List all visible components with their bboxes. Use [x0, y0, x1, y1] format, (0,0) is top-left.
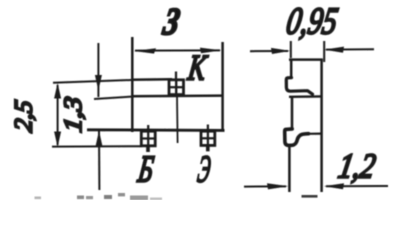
svg-text:1,2: 1,2 [336, 147, 379, 186]
side view: left edge middle segment [291, 97, 294, 130]
svg-text:0,95: 0,95 [283, 1, 340, 43]
front view: package left edge [131, 37, 134, 132]
side view: upper lead hook [286, 78, 312, 95]
emitter lead square (pin E) [201, 131, 215, 145]
emitter lead tick above [207, 125, 209, 132]
svg-text:2,5: 2,5 [11, 99, 38, 134]
side view: left edge lower segment [288, 145, 291, 192]
side view: top edge [289, 58, 323, 61]
label 0,95 [283, 1, 340, 43]
base lead tick above [147, 125, 149, 131]
front view: step top edge [131, 78, 172, 81]
dimension 0,95: extension bars [291, 41, 324, 62]
side view: bottom edge fragment [302, 195, 318, 198]
label K [185, 48, 210, 88]
collector lead square (pin K) [169, 80, 184, 95]
svg-text:3: 3 [160, 1, 183, 43]
collector lead centerline through body [176, 95, 179, 143]
extension line for dim 2,5 bottom (lead ends) [52, 145, 142, 147]
label 1,2 [336, 147, 379, 186]
label 3 [160, 1, 183, 43]
svg-text:1,3: 1,3 [60, 95, 87, 134]
collector lead centerline above [175, 72, 177, 80]
emitter lead stub below [206, 145, 210, 151]
base lead square (pin B) [141, 131, 155, 146]
front view: package right edge [221, 42, 224, 131]
cropped caption fragments at bottom [35, 193, 163, 200]
label 2,5 (rotated) [11, 99, 38, 134]
svg-text:Э: Э [195, 149, 213, 191]
dimension 0,95: left arrow line [250, 48, 290, 54]
side view: upper seam line [289, 95, 322, 98]
side view: right edge [320, 59, 323, 193]
dimension 1,3 lower leader with up arrow [96, 131, 103, 191]
label E [195, 149, 213, 191]
front view: body bottom edge [87, 128, 225, 131]
side view: lower lead hook [285, 129, 309, 146]
base lead stub below [146, 146, 150, 152]
extension line for dim 1,3 top (body top) [94, 97, 131, 99]
side view: left edge upper segment [290, 59, 293, 79]
label 1,3 (rotated) [60, 95, 87, 134]
svg-text:К: К [185, 48, 210, 88]
dimension 1,3 upper leader with down arrow [95, 43, 102, 97]
dimension 3 line with arrows [134, 48, 222, 54]
extension line for dim 2,5 top (step top) [53, 80, 131, 83]
side view: lower seam line [307, 133, 322, 135]
dimension 1,2: left arrow line [244, 183, 288, 189]
svg-text:Б: Б [135, 149, 156, 191]
label B [135, 149, 156, 191]
front view: body top edge [131, 94, 224, 97]
dimension 1,2: right arrow line [324, 183, 388, 189]
dimension 2,5 line with arrows [54, 83, 61, 147]
dimension 0,95: right arrow line [324, 47, 374, 53]
